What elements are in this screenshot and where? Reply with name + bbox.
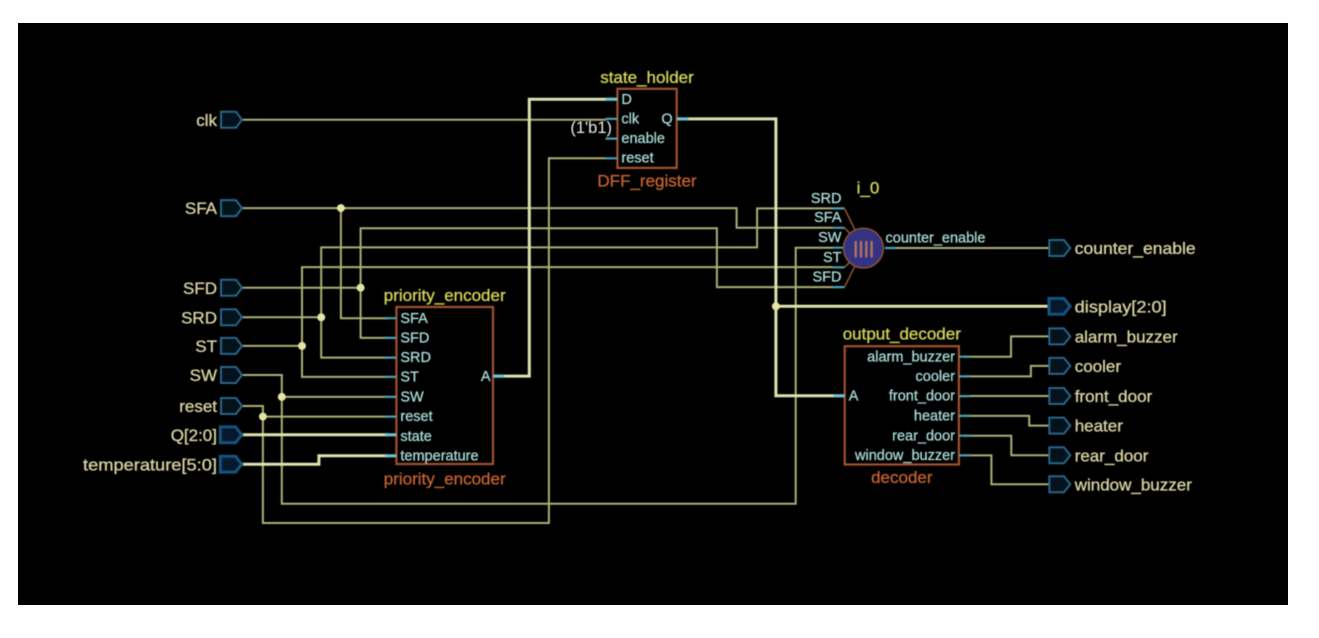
wire Q[2:0] bus — [241, 433, 389, 436]
svg-text:SRD: SRD — [811, 191, 842, 207]
port ST — [221, 338, 242, 354]
svg-text:ST: ST — [195, 337, 217, 356]
wire cooler net — [964, 366, 1050, 377]
svg-text:decoder: decoder — [871, 468, 933, 487]
port SRD — [221, 309, 242, 325]
svg-text:heater: heater — [1075, 417, 1124, 436]
svg-text:window_buzzer: window_buzzer — [854, 448, 955, 464]
svg-text:i_0: i_0 — [857, 179, 880, 198]
port counter_enable — [1049, 240, 1070, 256]
svg-text:clk: clk — [196, 111, 217, 130]
port SFA — [221, 200, 242, 216]
wire Q bus DFF to display and decoder A — [688, 119, 1050, 396]
port front_door — [1049, 388, 1070, 404]
svg-text:cooler: cooler — [916, 369, 956, 385]
wire SFD net — [241, 228, 833, 338]
wire SFA net — [241, 208, 833, 318]
svg-text:enable: enable — [621, 131, 665, 147]
svg-text:Q: Q — [661, 112, 672, 128]
svg-text:Q[2:0]: Q[2:0] — [171, 426, 217, 445]
port SFD — [221, 280, 242, 296]
wire counter_enable net — [894, 247, 1050, 249]
svg-text:alarm_buzzer: alarm_buzzer — [867, 349, 955, 365]
wire clk net — [241, 119, 606, 121]
svg-text:alarm_buzzer: alarm_buzzer — [1075, 328, 1178, 347]
svg-text:cooler: cooler — [1075, 357, 1122, 376]
wire SRD net — [241, 208, 833, 357]
op reduce-or i_0 — [811, 179, 986, 288]
svg-text:SW: SW — [818, 230, 842, 246]
svg-text:SW: SW — [400, 390, 424, 406]
port window_buzzer — [1049, 476, 1070, 492]
svg-text:SFA: SFA — [814, 210, 842, 226]
wire alarm_buzzer net — [964, 336, 1050, 356]
svg-text:counter_enable: counter_enable — [1075, 239, 1196, 258]
op decoder U output_decoder — [834, 325, 971, 487]
svg-text:rear_door: rear_door — [892, 428, 955, 444]
wire ST net — [241, 267, 833, 377]
port cooler — [1049, 358, 1070, 374]
svg-text:SW: SW — [190, 366, 217, 385]
svg-text:A: A — [849, 388, 859, 404]
junction SRD — [317, 313, 325, 321]
svg-text:SRD: SRD — [181, 308, 217, 327]
input ports — [83, 111, 242, 474]
port temperature[5:0] bus — [220, 456, 241, 472]
svg-text:ST: ST — [823, 250, 842, 266]
junction ST — [298, 342, 306, 350]
wire SW net — [241, 248, 833, 504]
op priority_encoder U priority_encoder — [384, 286, 506, 489]
svg-text:SFD: SFD — [813, 270, 842, 286]
svg-text:SFD: SFD — [183, 279, 217, 298]
wire window_buzzer net — [964, 455, 1050, 484]
svg-text:counter_enable: counter_enable — [886, 230, 986, 246]
svg-text:SRD: SRD — [400, 350, 431, 366]
svg-text:SFD: SFD — [400, 331, 429, 347]
svg-text:clk: clk — [621, 112, 639, 128]
svg-text:front_door: front_door — [1075, 387, 1153, 406]
svg-text:DFF_register: DFF_register — [597, 172, 697, 191]
svg-text:SFA: SFA — [185, 199, 218, 218]
port clk — [221, 112, 242, 128]
svg-text:reset: reset — [179, 397, 217, 416]
svg-text:output_decoder: output_decoder — [843, 325, 961, 344]
junction SFA — [337, 204, 345, 212]
svg-text:state_holder: state_holder — [600, 68, 694, 87]
port Q[2:0] bus — [220, 427, 241, 443]
svg-text:reset: reset — [621, 151, 653, 167]
svg-text:temperature[5:0]: temperature[5:0] — [83, 455, 217, 474]
svg-text:SFA: SFA — [400, 311, 428, 327]
svg-text:temperature: temperature — [400, 448, 478, 464]
port reset — [221, 398, 242, 414]
wire heater net — [964, 416, 1050, 426]
port SW — [221, 367, 242, 383]
svg-text:ST: ST — [400, 369, 419, 385]
svg-text:display[2:0]: display[2:0] — [1075, 297, 1167, 316]
wire reset net — [241, 158, 606, 523]
svg-text:window_buzzer: window_buzzer — [1074, 475, 1193, 494]
wire A bus encoder to DFF D — [503, 99, 606, 376]
port heater — [1049, 418, 1070, 434]
svg-text:rear_door: rear_door — [1075, 446, 1149, 465]
junction SFD — [357, 284, 365, 292]
wire front_door net — [964, 395, 1050, 397]
svg-text:reset: reset — [400, 409, 432, 425]
junction reset — [259, 413, 267, 421]
port alarm_buzzer — [1049, 328, 1070, 344]
wire rear_door net — [964, 436, 1050, 456]
junction Q display — [772, 302, 780, 310]
svg-text:state: state — [400, 429, 431, 445]
svg-text:front_door: front_door — [889, 389, 955, 405]
op DFF_register U state_holder — [597, 68, 697, 191]
svg-text:priority_encoder: priority_encoder — [384, 470, 506, 489]
junction SW — [278, 393, 286, 401]
port rear_door — [1049, 447, 1070, 463]
port display[2:0] bus — [1049, 298, 1070, 314]
output ports — [1049, 239, 1196, 494]
svg-text:priority_encoder: priority_encoder — [384, 286, 506, 305]
svg-text:D: D — [621, 92, 631, 108]
svg-text:heater: heater — [914, 409, 955, 425]
svg-text:(1'b1): (1'b1) — [570, 119, 612, 137]
wire temperature[5:0] bus — [241, 456, 389, 464]
svg-text:A: A — [481, 369, 491, 385]
